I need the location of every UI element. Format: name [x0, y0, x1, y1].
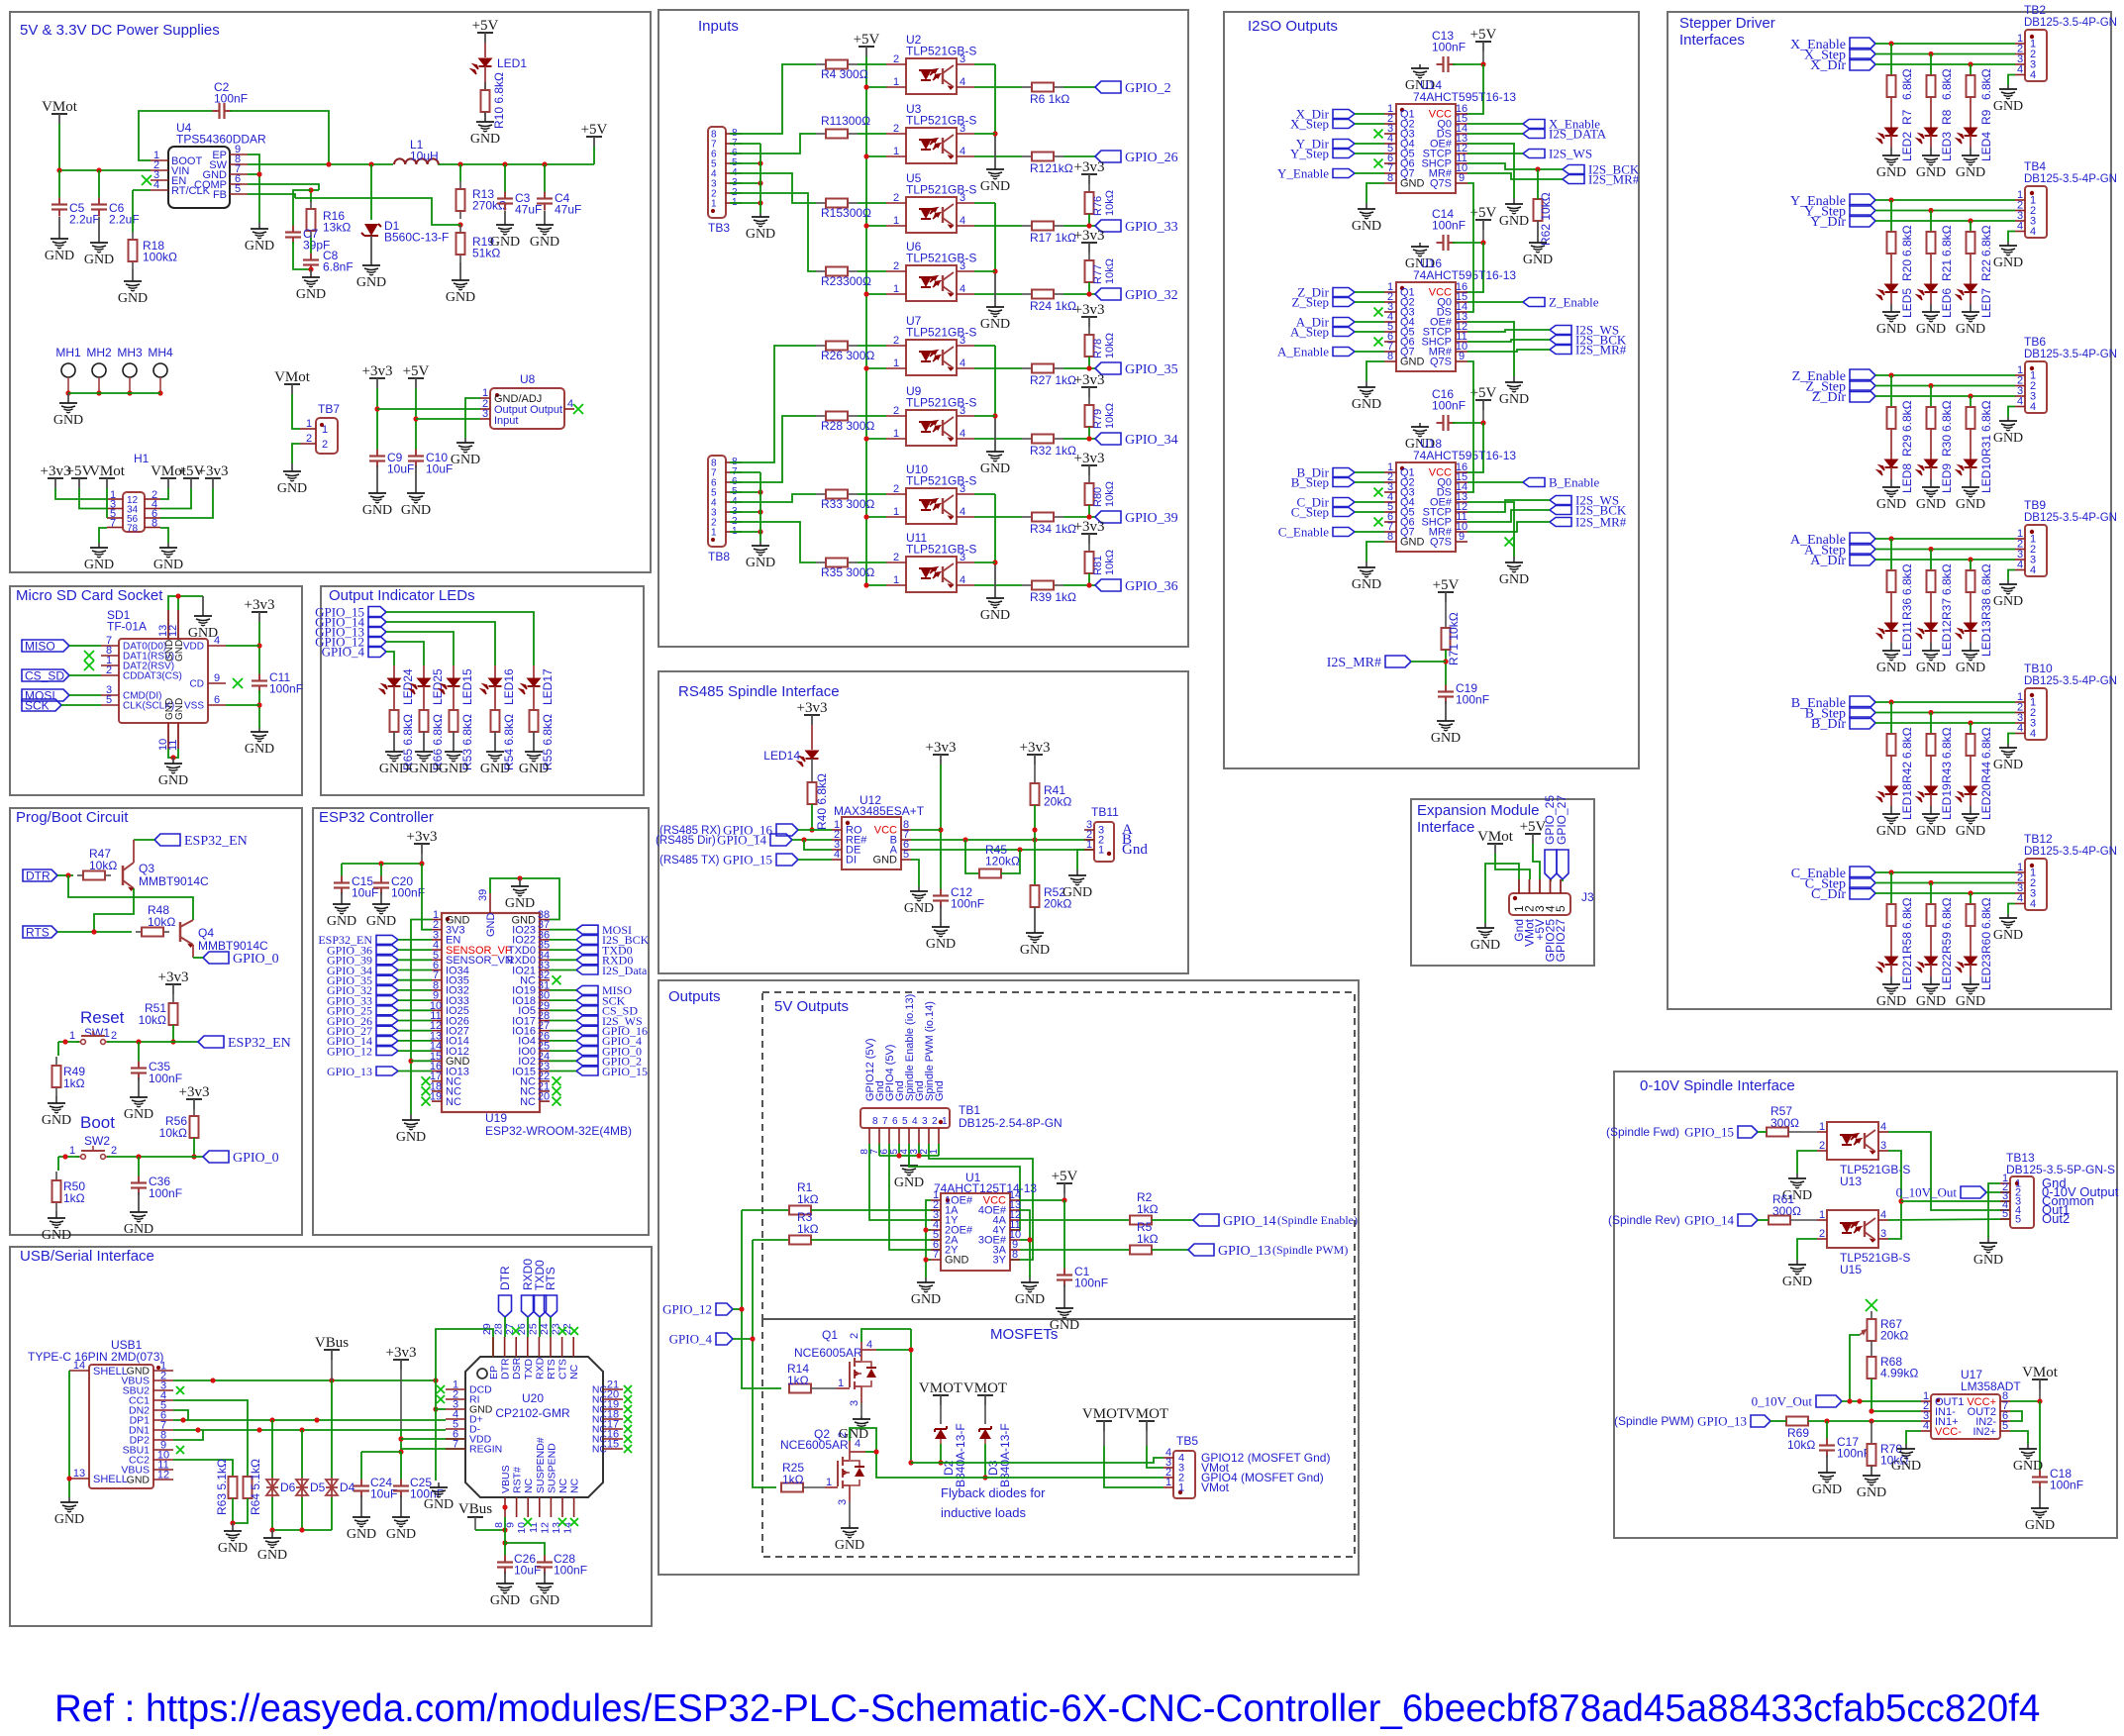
- svg-text:VBUS: VBUS: [500, 1465, 512, 1493]
- svg-text:TB4: TB4: [2024, 159, 2046, 173]
- capacitor C5: [58, 198, 60, 205]
- flag Y_Dir: [1850, 215, 1875, 227]
- flag GPIO_34: [376, 966, 398, 974]
- svg-text:SUSPEND#: SUSPEND#: [535, 1437, 547, 1493]
- svg-text:+3v3: +3v3: [362, 363, 393, 379]
- output resistor: [974, 516, 1022, 518]
- svg-text:R26 300Ω: R26 300Ω: [821, 349, 874, 362]
- left flags: [1333, 468, 1355, 477]
- svg-text:GND: GND: [894, 1175, 924, 1190]
- svg-text:GPIO_35: GPIO_35: [1125, 362, 1178, 377]
- wire: [398, 1071, 432, 1072]
- svg-text:J3: J3: [1581, 890, 1594, 904]
- flag GPIO_13: [368, 627, 386, 638]
- flag GPIO_36: [376, 946, 398, 955]
- svg-text:+5V: +5V: [472, 18, 499, 34]
- svg-text:10uH: 10uH: [410, 150, 439, 163]
- resistor R19: [459, 225, 461, 233]
- svg-text:4: 4: [834, 849, 840, 861]
- svg-text:GND: GND: [45, 249, 74, 263]
- svg-text:R33 300Ω: R33 300Ω: [821, 497, 874, 511]
- svg-text:I2S_MR#: I2S_MR#: [1575, 515, 1627, 530]
- svg-text:4: 4: [2017, 396, 2023, 408]
- svg-text:10uF: 10uF: [426, 462, 453, 476]
- svg-text:SW1: SW1: [84, 1026, 110, 1040]
- svg-text:GND: GND: [980, 179, 1010, 194]
- svg-text:VMOT: VMOT: [963, 1380, 1007, 1396]
- svg-text:I2S_Data: I2S_Data: [602, 964, 648, 977]
- svg-text:100nF: 100nF: [1074, 1276, 1108, 1290]
- flag GPIO_16: [576, 1026, 598, 1035]
- net +5V: [1525, 833, 1541, 835]
- svg-text:2: 2: [849, 1333, 860, 1339]
- svg-text:R37: R37: [1940, 598, 1954, 620]
- flag I2S_MR#: [1385, 656, 1411, 667]
- OE ground right: [1467, 144, 1514, 198]
- wire +5V to pin1: [866, 438, 886, 440]
- wire: [398, 989, 432, 991]
- svg-text:DB125-3.5-4P-GN: DB125-3.5-4P-GN: [2024, 512, 2117, 524]
- svg-text:1: 1: [942, 1116, 948, 1127]
- svg-text:4: 4: [567, 398, 573, 410]
- flag 0_10V_Out: [1961, 1186, 1986, 1198]
- SD gnd pins 13 12: [167, 610, 169, 639]
- ground: [994, 416, 996, 452]
- svg-text:MMBT9014C: MMBT9014C: [198, 939, 268, 953]
- wire: [550, 949, 576, 951]
- output resistor: [974, 367, 1022, 369]
- ground: [1970, 148, 1972, 155]
- flag Z_Dir: [1850, 390, 1875, 402]
- wire: [550, 1040, 576, 1042]
- resistor R21: [1930, 231, 1932, 233]
- svg-text:VMot: VMot: [1477, 829, 1514, 845]
- svg-text:GND: GND: [911, 1292, 941, 1307]
- svg-text:I2S_MR#: I2S_MR#: [1588, 172, 1640, 187]
- resistor R60: [1970, 903, 1972, 905]
- svg-text:3: 3: [960, 53, 965, 65]
- svg-text:100nF: 100nF: [951, 897, 984, 911]
- IC1 right wires: [1467, 123, 1523, 125]
- ground C16: [1419, 423, 1421, 427]
- wire Q1 drain: [860, 1342, 862, 1361]
- svg-text:10kΩ: 10kΩ: [1104, 403, 1116, 429]
- capacitor C25: [400, 1452, 402, 1481]
- flag GPIO_14: [1738, 1214, 1758, 1226]
- svg-text:GND: GND: [1876, 322, 1906, 337]
- svg-text:6.8kΩ: 6.8kΩ: [1900, 727, 1914, 759]
- wire: [550, 929, 576, 931]
- svg-text:U8: U8: [520, 372, 536, 386]
- svg-text:8: 8: [1387, 172, 1393, 184]
- svg-text:GND: GND: [470, 132, 500, 147]
- wire: [550, 1009, 576, 1011]
- resistor R3: [788, 1239, 790, 1241]
- svg-text:TB11: TB11: [1091, 805, 1119, 819]
- net +5V: [477, 32, 493, 34]
- flag GPIO_15: [368, 607, 386, 618]
- svg-text:GND: GND: [980, 608, 1010, 623]
- svg-text:0_10V_Out: 0_10V_Out: [1896, 1185, 1958, 1200]
- wire EP loop: [436, 1329, 493, 1481]
- svg-text:Q4: Q4: [198, 926, 214, 940]
- LED LED11: [1885, 623, 1898, 631]
- wire SW rail to L1: [248, 163, 594, 165]
- capacitor C2: [139, 111, 214, 160]
- wire DTR to Q4 collector: [68, 875, 193, 920]
- wire CC2 to R63: [173, 1460, 233, 1476]
- svg-text:1: 1: [1098, 845, 1104, 857]
- svg-text:GND: GND: [1916, 661, 1946, 675]
- svg-text:2: 2: [111, 1030, 117, 1042]
- wire column: [1890, 44, 1892, 75]
- resistor R13: [459, 164, 461, 181]
- wire: [1875, 199, 2015, 201]
- svg-text:19: 19: [430, 1091, 442, 1103]
- wire: [398, 999, 432, 1001]
- svg-text:8: 8: [1387, 531, 1393, 543]
- flag RXD0: [576, 956, 598, 965]
- resistor R37: [1930, 569, 1932, 571]
- svg-text:R59: R59: [1940, 932, 1954, 954]
- svg-text:1kΩ: 1kΩ: [63, 1076, 85, 1090]
- flag GPIO_35: [1063, 367, 1095, 369]
- svg-text:GND: GND: [746, 227, 775, 242]
- svg-text:6.8kΩ: 6.8kΩ: [1979, 897, 1993, 929]
- wire column: [1930, 54, 1932, 76]
- optocoupler U13: [1827, 1122, 1878, 1160]
- ground R70: [1871, 1466, 1872, 1476]
- flag GPIO_4: [368, 647, 386, 658]
- svg-text:6.8kΩ: 6.8kΩ: [1979, 400, 1993, 432]
- resistor R16: [310, 190, 312, 202]
- connector J3: [1509, 893, 1570, 915]
- svg-text:C_Dir: C_Dir: [1811, 887, 1846, 902]
- wire: [550, 959, 576, 961]
- svg-text:5: 5: [2002, 1420, 2008, 1432]
- ground TB1: [908, 1156, 910, 1166]
- capacitor C26: [504, 1556, 506, 1563]
- input resistor: [816, 202, 826, 204]
- svg-text:Q7S: Q7S: [1430, 357, 1452, 368]
- svg-text:R81: R81: [1092, 556, 1104, 575]
- ground Q2 source: [849, 1485, 851, 1502]
- ground: [232, 1523, 234, 1531]
- svg-text:MISO: MISO: [25, 639, 55, 653]
- svg-text:+5V: +5V: [581, 122, 608, 138]
- svg-text:GND: GND: [1973, 1253, 2003, 1268]
- svg-text:+5V: +5V: [1052, 1169, 1078, 1184]
- pin 39 GND top: [489, 893, 491, 913]
- flag 0_10V_Out lower: [1816, 1395, 1842, 1407]
- svg-text:X_Step: X_Step: [1290, 117, 1329, 132]
- connector TB7: [284, 383, 300, 385]
- resistor R49: [57, 1042, 59, 1056]
- svg-text:3: 3: [482, 408, 488, 420]
- flag X_Dir: [1850, 58, 1875, 70]
- svg-text:GND: GND: [1956, 824, 1985, 839]
- ground TB13: [1988, 1183, 2000, 1238]
- svg-text:R34 1kΩ: R34 1kΩ: [1030, 522, 1076, 536]
- flag GPIO_36: [1063, 584, 1095, 586]
- svg-text:LED22: LED22: [1940, 954, 1954, 990]
- svg-text:GND: GND: [1352, 577, 1381, 592]
- net +5V: [1057, 1182, 1072, 1184]
- svg-text:GND: GND: [1470, 938, 1500, 953]
- ground bottom: [172, 758, 174, 764]
- svg-text:GND: GND: [327, 914, 356, 929]
- svg-text:GPIO_14: GPIO_14: [1223, 1214, 1276, 1229]
- svg-text:TYPE-C 16PIN 2MD(073): TYPE-C 16PIN 2MD(073): [28, 1350, 163, 1364]
- ground: [341, 892, 343, 904]
- svg-text:GPIO_39: GPIO_39: [1125, 511, 1178, 526]
- wire column: [1890, 375, 1892, 407]
- capacitor C20: [380, 876, 382, 883]
- svg-text:GPIO_13: GPIO_13: [1218, 1244, 1271, 1259]
- svg-text:100nF: 100nF: [1456, 693, 1489, 707]
- flag GPIO_35: [376, 975, 398, 984]
- ground: [55, 1211, 57, 1218]
- svg-text:GND: GND: [424, 1497, 454, 1512]
- svg-text:GND: GND: [1993, 431, 2023, 446]
- svg-text:(Spindle Fwd): (Spindle Fwd): [1606, 1125, 1679, 1139]
- svg-text:3: 3: [922, 1116, 928, 1127]
- svg-text:29: 29: [481, 1323, 493, 1335]
- svg-text:47uF: 47uF: [555, 203, 581, 217]
- svg-text:5V Outputs: 5V Outputs: [774, 998, 849, 1015]
- net +3v3: [414, 843, 430, 845]
- ground: [1930, 479, 1932, 487]
- flag GPIO_14 spindle enable: [1193, 1214, 1219, 1226]
- flag GPIO_13: [376, 1067, 398, 1075]
- svg-text:Micro SD Card Socket: Micro SD Card Socket: [16, 587, 163, 604]
- svg-text:13: 13: [73, 1468, 85, 1480]
- svg-text:R64 5.1kΩ: R64 5.1kΩ: [249, 1459, 262, 1515]
- svg-text:Interface: Interface: [1417, 819, 1474, 836]
- svg-text:GPIO_15: GPIO_15: [602, 1065, 648, 1078]
- svg-text:LED20: LED20: [1979, 783, 1993, 820]
- svg-text:+5V: +5V: [854, 32, 880, 48]
- transistor Q3 MMBT9014C: [122, 866, 125, 885]
- svg-text:1kΩ: 1kΩ: [63, 1191, 85, 1205]
- svg-text:100nF: 100nF: [149, 1186, 182, 1200]
- ground U1 left: [925, 1277, 927, 1282]
- svg-text:GND: GND: [1916, 497, 1946, 512]
- svg-text:DB125-3.5-4P-GN: DB125-3.5-4P-GN: [2024, 675, 2117, 687]
- svg-text:LED21: LED21: [1900, 954, 1914, 990]
- transistor Q4 MMBT9014C: [179, 922, 182, 942]
- output resistor: [974, 86, 1022, 88]
- ground: [138, 1192, 140, 1212]
- resistor R9: [1970, 74, 1972, 76]
- svg-text:DB125-3.5-4P-GN: DB125-3.5-4P-GN: [2024, 846, 2117, 858]
- flag ESP32_EN: [376, 935, 398, 944]
- svg-text:1: 1: [1086, 839, 1092, 851]
- wire column: [1970, 221, 1972, 232]
- svg-text:TB6: TB6: [2024, 335, 2046, 349]
- net +3v3: [165, 983, 181, 985]
- wire: [386, 652, 394, 665]
- svg-text:GND: GND: [530, 1593, 559, 1608]
- svg-text:2: 2: [893, 335, 899, 347]
- svg-text:1: 1: [893, 215, 899, 227]
- svg-text:+3v3: +3v3: [245, 597, 275, 613]
- ground: [380, 892, 382, 904]
- svg-text:100nF: 100nF: [554, 1564, 587, 1578]
- ground TB11: [1077, 850, 1084, 869]
- ground C11: [258, 728, 260, 732]
- flag GPIO_12: [376, 1047, 398, 1056]
- ground: [423, 732, 425, 752]
- svg-text:C_Enable: C_Enable: [1278, 525, 1329, 540]
- ground shell: [68, 1497, 70, 1502]
- wire: [1875, 374, 2015, 376]
- output resistor: [974, 293, 1022, 295]
- svg-text:NC: NC: [557, 1478, 569, 1493]
- svg-text:GND: GND: [1499, 572, 1529, 587]
- svg-text:GND: GND: [1782, 1275, 1812, 1289]
- resistor R70: [1871, 1421, 1872, 1444]
- wire column: [1890, 539, 1892, 570]
- svg-text:GND: GND: [1523, 253, 1553, 267]
- svg-text:Ref : https://easyeda.com/modu: Ref : https://easyeda.com/modules/ESP32-…: [54, 1687, 2040, 1730]
- svg-text:10uF: 10uF: [514, 1564, 541, 1578]
- svg-text:5: 5: [1554, 905, 1568, 912]
- resistor R50: [57, 1157, 59, 1171]
- svg-text:4: 4: [960, 283, 965, 295]
- svg-text:(Spindle Enable): (Spindle Enable): [1277, 1213, 1358, 1227]
- ground U13: [1797, 1151, 1817, 1174]
- svg-text:MH4: MH4: [148, 346, 173, 359]
- svg-text:GND: GND: [42, 1113, 71, 1128]
- svg-text:ESP32-WROOM-32E(4MB): ESP32-WROOM-32E(4MB): [485, 1124, 632, 1138]
- wire column: [1930, 883, 1932, 905]
- resistor R51: [172, 1002, 174, 1004]
- svg-text:LED25: LED25: [431, 668, 445, 705]
- capacitor C17: [1826, 1421, 1828, 1441]
- LED LED20: [1965, 786, 1977, 794]
- LED LED3: [1925, 128, 1938, 136]
- wire: [1875, 53, 2015, 55]
- svg-text:6.8kΩ: 6.8kΩ: [1900, 68, 1914, 100]
- svg-text:U19: U19: [485, 1111, 507, 1125]
- svg-text:1kΩ: 1kΩ: [782, 1473, 804, 1486]
- svg-text:4: 4: [2030, 728, 2036, 740]
- svg-text:1: 1: [1178, 1482, 1184, 1494]
- svg-text:R36: R36: [1900, 598, 1914, 620]
- svg-text:Z_Enable: Z_Enable: [1549, 295, 1599, 310]
- output resistor: [974, 225, 1022, 227]
- flag ESP32_EN: [198, 1036, 224, 1048]
- TB1 signal wires: [869, 1144, 941, 1220]
- svg-text:R20: R20: [1900, 259, 1914, 281]
- wire: [1875, 210, 2015, 212]
- svg-text:100nF: 100nF: [214, 92, 248, 106]
- flag GPIO_15: [1738, 1126, 1758, 1138]
- capacitor C9: [376, 450, 378, 457]
- pullup R81: [1081, 533, 1097, 535]
- capacitor C10: [415, 450, 417, 457]
- svg-text:8: 8: [1387, 351, 1393, 362]
- svg-text:TB7: TB7: [318, 402, 340, 416]
- capacitor C4: [544, 164, 546, 194]
- svg-text:GND: GND: [505, 896, 535, 911]
- wire column: [1970, 723, 1972, 734]
- pullup R76: [1081, 173, 1097, 175]
- ground: [533, 732, 535, 752]
- ground TB: [2008, 570, 2015, 581]
- svg-text:GND: GND: [1050, 1318, 1079, 1333]
- svg-text:7: 7: [882, 1116, 888, 1127]
- wire +5V to pin1: [866, 584, 886, 586]
- ground TB3: [759, 213, 761, 217]
- resistor R31: [1970, 406, 1972, 408]
- svg-text:MOSFETs: MOSFETs: [990, 1326, 1058, 1343]
- flag CS_SD: [576, 1006, 598, 1015]
- svg-text:GND: GND: [1993, 99, 2023, 114]
- ground: [1890, 643, 1892, 651]
- svg-text:1: 1: [306, 418, 312, 430]
- flyback diode D3: [977, 1394, 993, 1396]
- wire: [1875, 220, 2015, 222]
- ground U15: [1797, 1239, 1817, 1260]
- capacitor C13: [1437, 63, 1444, 65]
- svg-text:IN2+: IN2+: [1972, 1426, 1996, 1438]
- svg-text:R35 300Ω: R35 300Ω: [821, 565, 874, 579]
- svg-text:VMot: VMot: [42, 99, 78, 115]
- net VMot: [51, 113, 67, 115]
- ground C17: [1826, 1455, 1828, 1473]
- svg-text:GND: GND: [409, 762, 439, 776]
- svg-text:3: 3: [849, 1400, 860, 1406]
- svg-text:LM358ADT: LM358ADT: [1961, 1379, 2021, 1393]
- svg-text:LED11: LED11: [1900, 621, 1914, 657]
- svg-text:Gnd: Gnd: [1122, 842, 1148, 858]
- svg-text:GND: GND: [84, 253, 114, 267]
- wire: [550, 989, 576, 991]
- capacitor C1: [1063, 1269, 1065, 1276]
- SD gnd pins 10 11: [167, 723, 169, 749]
- TB8 fan wires: [730, 346, 816, 462]
- svg-text:GND: GND: [277, 481, 307, 496]
- svg-text:6.8kΩ: 6.8kΩ: [1940, 727, 1954, 759]
- svg-text:GND: GND: [1499, 214, 1529, 229]
- svg-text:GPIO_12: GPIO_12: [662, 1302, 712, 1317]
- wire: [1875, 63, 2015, 65]
- capacitor C14: [1437, 242, 1444, 244]
- svg-text:GND: GND: [480, 762, 510, 776]
- wire column: [1890, 872, 1892, 904]
- ground Q1 source: [860, 1386, 862, 1403]
- LED LED9: [1925, 460, 1938, 467]
- wire: [398, 959, 432, 961]
- svg-text:GND: GND: [124, 1222, 153, 1237]
- ground: [271, 1530, 273, 1538]
- wire: [386, 622, 495, 665]
- capacitor C3: [504, 164, 506, 194]
- svg-text:39: 39: [477, 889, 489, 901]
- svg-text:Q7S: Q7S: [1430, 178, 1452, 190]
- svg-text:GPIO_0: GPIO_0: [233, 952, 279, 967]
- resistor R20: [1890, 231, 1892, 233]
- wire: [386, 642, 424, 665]
- svg-text:R43: R43: [1940, 762, 1954, 783]
- svg-text:TB10: TB10: [2024, 662, 2053, 675]
- svg-text:10kΩ: 10kΩ: [1104, 550, 1116, 575]
- svg-text:0_10V_Out: 0_10V_Out: [1752, 1394, 1813, 1409]
- svg-text:R10 6.8kΩ: R10 6.8kΩ: [492, 72, 506, 129]
- svg-text:GPIO_36: GPIO_36: [1125, 579, 1178, 594]
